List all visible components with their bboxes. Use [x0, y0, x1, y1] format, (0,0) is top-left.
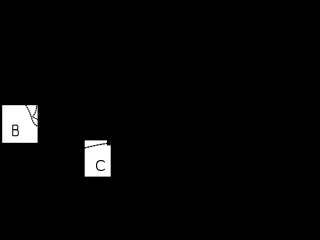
edge curve 1 over node B	[26, 105, 38, 127]
node B box	[2, 105, 37, 143]
edge curve over node C	[84, 143, 107, 148]
edge curve 2 over node B	[33, 104, 38, 120]
node B label	[13, 125, 19, 136]
arrowhead at node C right edge	[107, 140, 111, 145]
node C box	[85, 140, 111, 176]
node C label	[97, 161, 105, 171]
